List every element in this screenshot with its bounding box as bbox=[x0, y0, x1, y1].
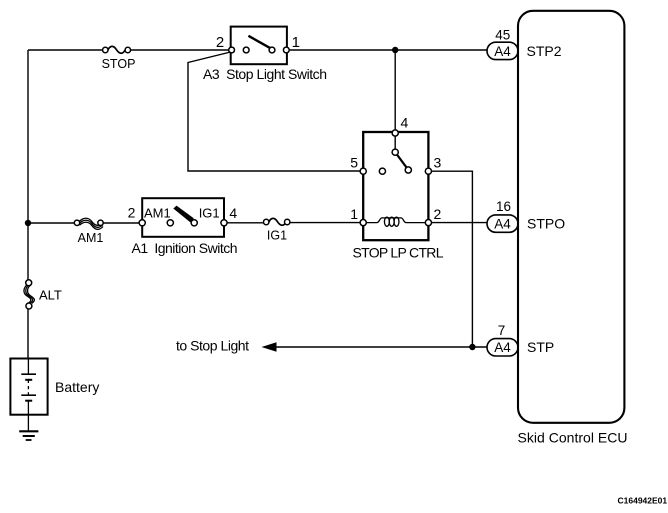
svg-text:C164942E01: C164942E01 bbox=[618, 496, 668, 506]
svg-text:A3 Stop Light Switch: A3 Stop Light Switch bbox=[203, 66, 327, 82]
wire: middle row junction to AM1 fusible link bbox=[28, 222, 74, 224]
svg-text:Battery: Battery bbox=[55, 379, 99, 395]
battery plate long + bbox=[21, 394, 36, 396]
svg-text:2: 2 bbox=[434, 206, 442, 222]
wire: relay pin 2 to STPO connector bbox=[432, 222, 488, 224]
wire: AM1 to ignition switch pin 2 bbox=[103, 222, 139, 224]
pivot contact bbox=[392, 149, 398, 155]
wire: STOP fuse to switch pin 2 bbox=[131, 49, 230, 51]
fixed contact near pin 5 bbox=[379, 168, 385, 174]
contact circle IG1 bbox=[191, 220, 197, 226]
battery internal top lead bbox=[27, 359, 29, 375]
wire: to Stop Light line bbox=[275, 346, 487, 348]
wire: switch pin 1 to STP2 connector bbox=[289, 49, 487, 51]
svg-text:A4: A4 bbox=[494, 340, 511, 355]
wire: pin 4 to pivot bbox=[394, 133, 396, 152]
wire: IG1 fuse to relay pin 1 bbox=[290, 222, 360, 224]
battery internal bottom lead bbox=[27, 401, 29, 415]
pin 1 terminal bbox=[283, 47, 289, 53]
fuse IG1 bbox=[264, 218, 290, 225]
svg-text:1: 1 bbox=[350, 206, 358, 222]
svg-text:STOP: STOP bbox=[102, 57, 136, 71]
svg-text:STOP LP CTRL: STOP LP CTRL bbox=[353, 245, 444, 261]
svg-text:5: 5 bbox=[350, 155, 358, 171]
contact circle AM1 bbox=[167, 220, 173, 226]
junction node STP branch bbox=[469, 344, 475, 350]
svg-text:IG1: IG1 bbox=[199, 205, 220, 220]
svg-text:1: 1 bbox=[292, 34, 300, 51]
fusible link ALT bbox=[24, 285, 34, 304]
junction node at relay pin 4 feed bbox=[392, 47, 398, 53]
battery plate long + bbox=[21, 373, 36, 375]
battery bbox=[10, 359, 47, 415]
relay switch arm bbox=[396, 153, 408, 169]
wire: relay pin 3 right then down to STP node bbox=[432, 171, 473, 347]
connector 7/A4 STP bbox=[487, 339, 518, 356]
relay STOP LP CTRL bbox=[360, 130, 431, 240]
svg-text:IG1: IG1 bbox=[267, 229, 287, 243]
svg-text:A4: A4 bbox=[494, 217, 511, 232]
svg-text:16: 16 bbox=[496, 199, 511, 214]
connector 45/A4 STP2 bbox=[487, 42, 518, 59]
battery dashed cell link bbox=[27, 380, 29, 395]
pin 2 terminal bbox=[139, 220, 145, 226]
pin 5 terminal bbox=[360, 168, 366, 174]
wire: ignition pin 4 to IG1 fuse bbox=[227, 222, 263, 224]
pin 1 terminal bbox=[360, 220, 366, 226]
junction node battery branch bbox=[25, 220, 31, 226]
moving contact end bbox=[405, 167, 411, 173]
svg-text:4: 4 bbox=[401, 115, 409, 131]
contact circle right bbox=[269, 47, 275, 53]
svg-text:to Stop Light: to Stop Light bbox=[176, 338, 249, 354]
wire: battery to ground bbox=[27, 415, 29, 432]
relay coil bbox=[366, 218, 425, 223]
contact circle left bbox=[243, 47, 249, 53]
svg-text:STP2: STP2 bbox=[527, 43, 562, 59]
svg-text:3: 3 bbox=[434, 155, 442, 171]
battery plate short - bbox=[25, 379, 32, 381]
svg-text:4: 4 bbox=[229, 205, 237, 221]
svg-text:7: 7 bbox=[498, 323, 506, 338]
svg-text:45: 45 bbox=[495, 28, 510, 43]
arrowhead to Stop Light bbox=[262, 342, 277, 351]
switch arm bbox=[248, 36, 270, 49]
wire: top horizontal from battery branch to STOP fuse bbox=[28, 49, 103, 51]
fusible link AM1 bbox=[80, 218, 104, 229]
svg-text:AM1: AM1 bbox=[144, 205, 171, 220]
svg-text:2: 2 bbox=[216, 34, 224, 51]
wire: switch pin 2 diagonal down-left then to relay pin 5 bbox=[188, 52, 360, 171]
svg-text:Skid Control ECU: Skid Control ECU bbox=[518, 430, 628, 446]
svg-text:STPO: STPO bbox=[527, 216, 565, 232]
pin 4 terminal bbox=[221, 220, 227, 226]
svg-text:STP: STP bbox=[527, 339, 554, 355]
switch A1 Ignition Switch bbox=[139, 198, 227, 237]
pin 2 terminal bbox=[229, 47, 235, 53]
svg-text:2: 2 bbox=[128, 205, 136, 221]
pin 4 terminal bbox=[392, 130, 398, 136]
fuse STOP bbox=[103, 46, 131, 53]
ECU Skid Control ECU bbox=[518, 11, 624, 423]
pin 3 terminal bbox=[425, 168, 431, 174]
svg-text:ALT: ALT bbox=[39, 288, 62, 303]
switch arm wedge bbox=[173, 206, 194, 223]
wire: junction down to relay pin 4 bbox=[394, 50, 396, 130]
pin 2 terminal bbox=[425, 220, 431, 226]
svg-text:A4: A4 bbox=[494, 44, 511, 59]
svg-text:AM1: AM1 bbox=[78, 231, 104, 245]
ground bbox=[19, 431, 38, 440]
svg-text:A1 Ignition Switch: A1 Ignition Switch bbox=[132, 240, 238, 256]
switch A3 Stop Light Switch bbox=[229, 27, 289, 65]
battery plate short - bbox=[25, 400, 32, 402]
wire: left vertical main feed bbox=[27, 50, 29, 359]
connector 16/A4 STPO bbox=[487, 215, 518, 232]
